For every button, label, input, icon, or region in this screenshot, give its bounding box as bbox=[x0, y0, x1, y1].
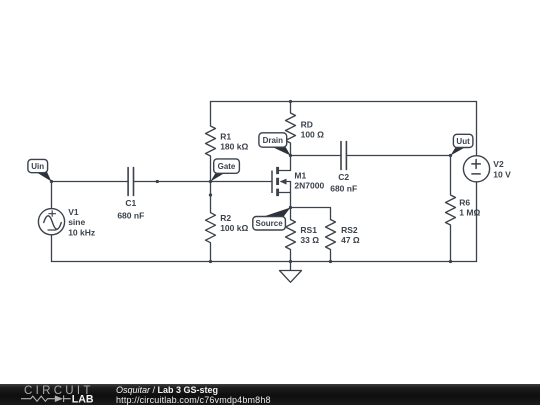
wire source to RS2 bbox=[291, 208, 331, 220]
junction dot RS1 bottom bbox=[289, 260, 292, 263]
svg-text:LAB: LAB bbox=[72, 394, 94, 405]
wire V2 top lead bbox=[476, 102, 478, 156]
node label Drain bbox=[259, 133, 291, 156]
junction dot Uut node bbox=[449, 154, 452, 157]
junction dot gate node bbox=[209, 180, 212, 183]
resistor R1 bbox=[206, 102, 249, 182]
wire bottom rail bbox=[52, 261, 477, 263]
footer bar bbox=[0, 384, 540, 405]
resistor RS1 bbox=[286, 208, 320, 262]
svg-text:sine: sine bbox=[68, 217, 85, 227]
svg-text:RS2: RS2 bbox=[341, 225, 358, 235]
junction dot RS2 bottom bbox=[329, 260, 332, 263]
wire ground stub bbox=[290, 262, 292, 271]
capacitor C2 bbox=[330, 142, 357, 194]
footer title text bbox=[116, 386, 218, 395]
svg-text:Gate: Gate bbox=[218, 162, 236, 171]
wire V2 bottom lead bbox=[476, 182, 478, 262]
svg-text:680 nF: 680 nF bbox=[330, 184, 357, 194]
svg-text:M1: M1 bbox=[294, 170, 306, 180]
voltage source V2 (DC) bbox=[463, 156, 511, 182]
svg-text:100 kΩ: 100 kΩ bbox=[220, 223, 248, 233]
svg-text:C2: C2 bbox=[338, 172, 349, 182]
wire input left (Uin to C1) bbox=[52, 181, 129, 183]
junction dot R2 top bbox=[209, 193, 212, 196]
junction dot Uin node bbox=[50, 180, 53, 183]
wire V1 bottom lead bbox=[51, 235, 53, 262]
junction dot R6 bottom bbox=[449, 260, 452, 263]
junction dot RD top bbox=[289, 100, 292, 103]
svg-text:47 Ω: 47 Ω bbox=[341, 235, 360, 245]
junction dot drain node bbox=[289, 154, 292, 157]
svg-text:Source: Source bbox=[256, 219, 284, 228]
svg-text:180 kΩ: 180 kΩ bbox=[220, 142, 248, 152]
resistor R2 bbox=[206, 195, 249, 262]
svg-text:1 MΩ: 1 MΩ bbox=[459, 208, 480, 218]
node label Uut bbox=[451, 134, 473, 155]
voltage source V1 (sine) bbox=[38, 207, 95, 238]
ground bbox=[280, 271, 302, 283]
svg-text:100 Ω: 100 Ω bbox=[301, 130, 325, 140]
svg-text:10 V: 10 V bbox=[493, 169, 511, 179]
junction dot R2 bottom bbox=[209, 260, 212, 263]
svg-text:V1: V1 bbox=[68, 207, 79, 217]
transistor M1 (NMOS 2N7000) bbox=[272, 156, 324, 208]
svg-text:V2: V2 bbox=[493, 159, 504, 169]
svg-text:C1: C1 bbox=[125, 198, 136, 208]
wire C2 to Uut node bbox=[346, 155, 450, 157]
svg-text:Uin: Uin bbox=[31, 162, 44, 171]
resistor RS2 bbox=[326, 220, 360, 262]
svg-text:Drain: Drain bbox=[263, 136, 284, 145]
svg-text:RS1: RS1 bbox=[300, 225, 317, 235]
node label Uin bbox=[28, 159, 52, 181]
svg-text:33 Ω: 33 Ω bbox=[300, 235, 319, 245]
wire gate (node to M1 gate) bbox=[211, 181, 273, 183]
svg-text:2N7000: 2N7000 bbox=[294, 181, 324, 191]
CircuitLab logo resistor-diode squiggle bbox=[21, 395, 71, 402]
wire drain to C2 bbox=[291, 155, 342, 157]
svg-text:10 kHz: 10 kHz bbox=[68, 228, 95, 238]
resistor R6 bbox=[446, 156, 481, 262]
junction dot source node bbox=[289, 206, 292, 209]
node label Gate bbox=[211, 159, 240, 182]
wire gate node to R2 bbox=[210, 182, 212, 196]
wire V1 top lead bbox=[51, 182, 53, 209]
resistor RD bbox=[286, 102, 325, 156]
wire input right (C1 to gate node) bbox=[134, 181, 211, 183]
svg-text:680 nF: 680 nF bbox=[117, 210, 144, 220]
svg-text:R2: R2 bbox=[220, 213, 231, 223]
footer url text bbox=[116, 396, 271, 405]
svg-text:R1: R1 bbox=[220, 131, 231, 141]
wire top rail bbox=[211, 101, 477, 103]
svg-text:R6: R6 bbox=[459, 197, 470, 207]
node label Source bbox=[253, 208, 291, 231]
junction dot after C1 bbox=[156, 180, 159, 183]
svg-text:RD: RD bbox=[301, 120, 313, 130]
capacitor C1 bbox=[117, 168, 144, 221]
svg-text:Uut: Uut bbox=[456, 137, 470, 146]
